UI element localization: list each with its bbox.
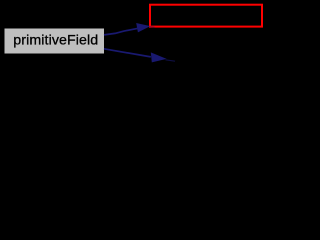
faint edge tail into red node — [150, 26, 155, 29]
node primitiveField (current node, gray fill) — [5, 29, 105, 54]
arrowhead into hidden node — [151, 52, 167, 62]
arrowhead into red node — [136, 23, 150, 32]
red node (truncated, open red box) — [150, 5, 262, 27]
svg-text:primitiveField: primitiveField — [13, 32, 98, 48]
edge wire to hidden node — [104, 49, 151, 57]
faint edge tail into hidden node — [166, 60, 176, 61]
edge wire to red node — [104, 28, 138, 35]
